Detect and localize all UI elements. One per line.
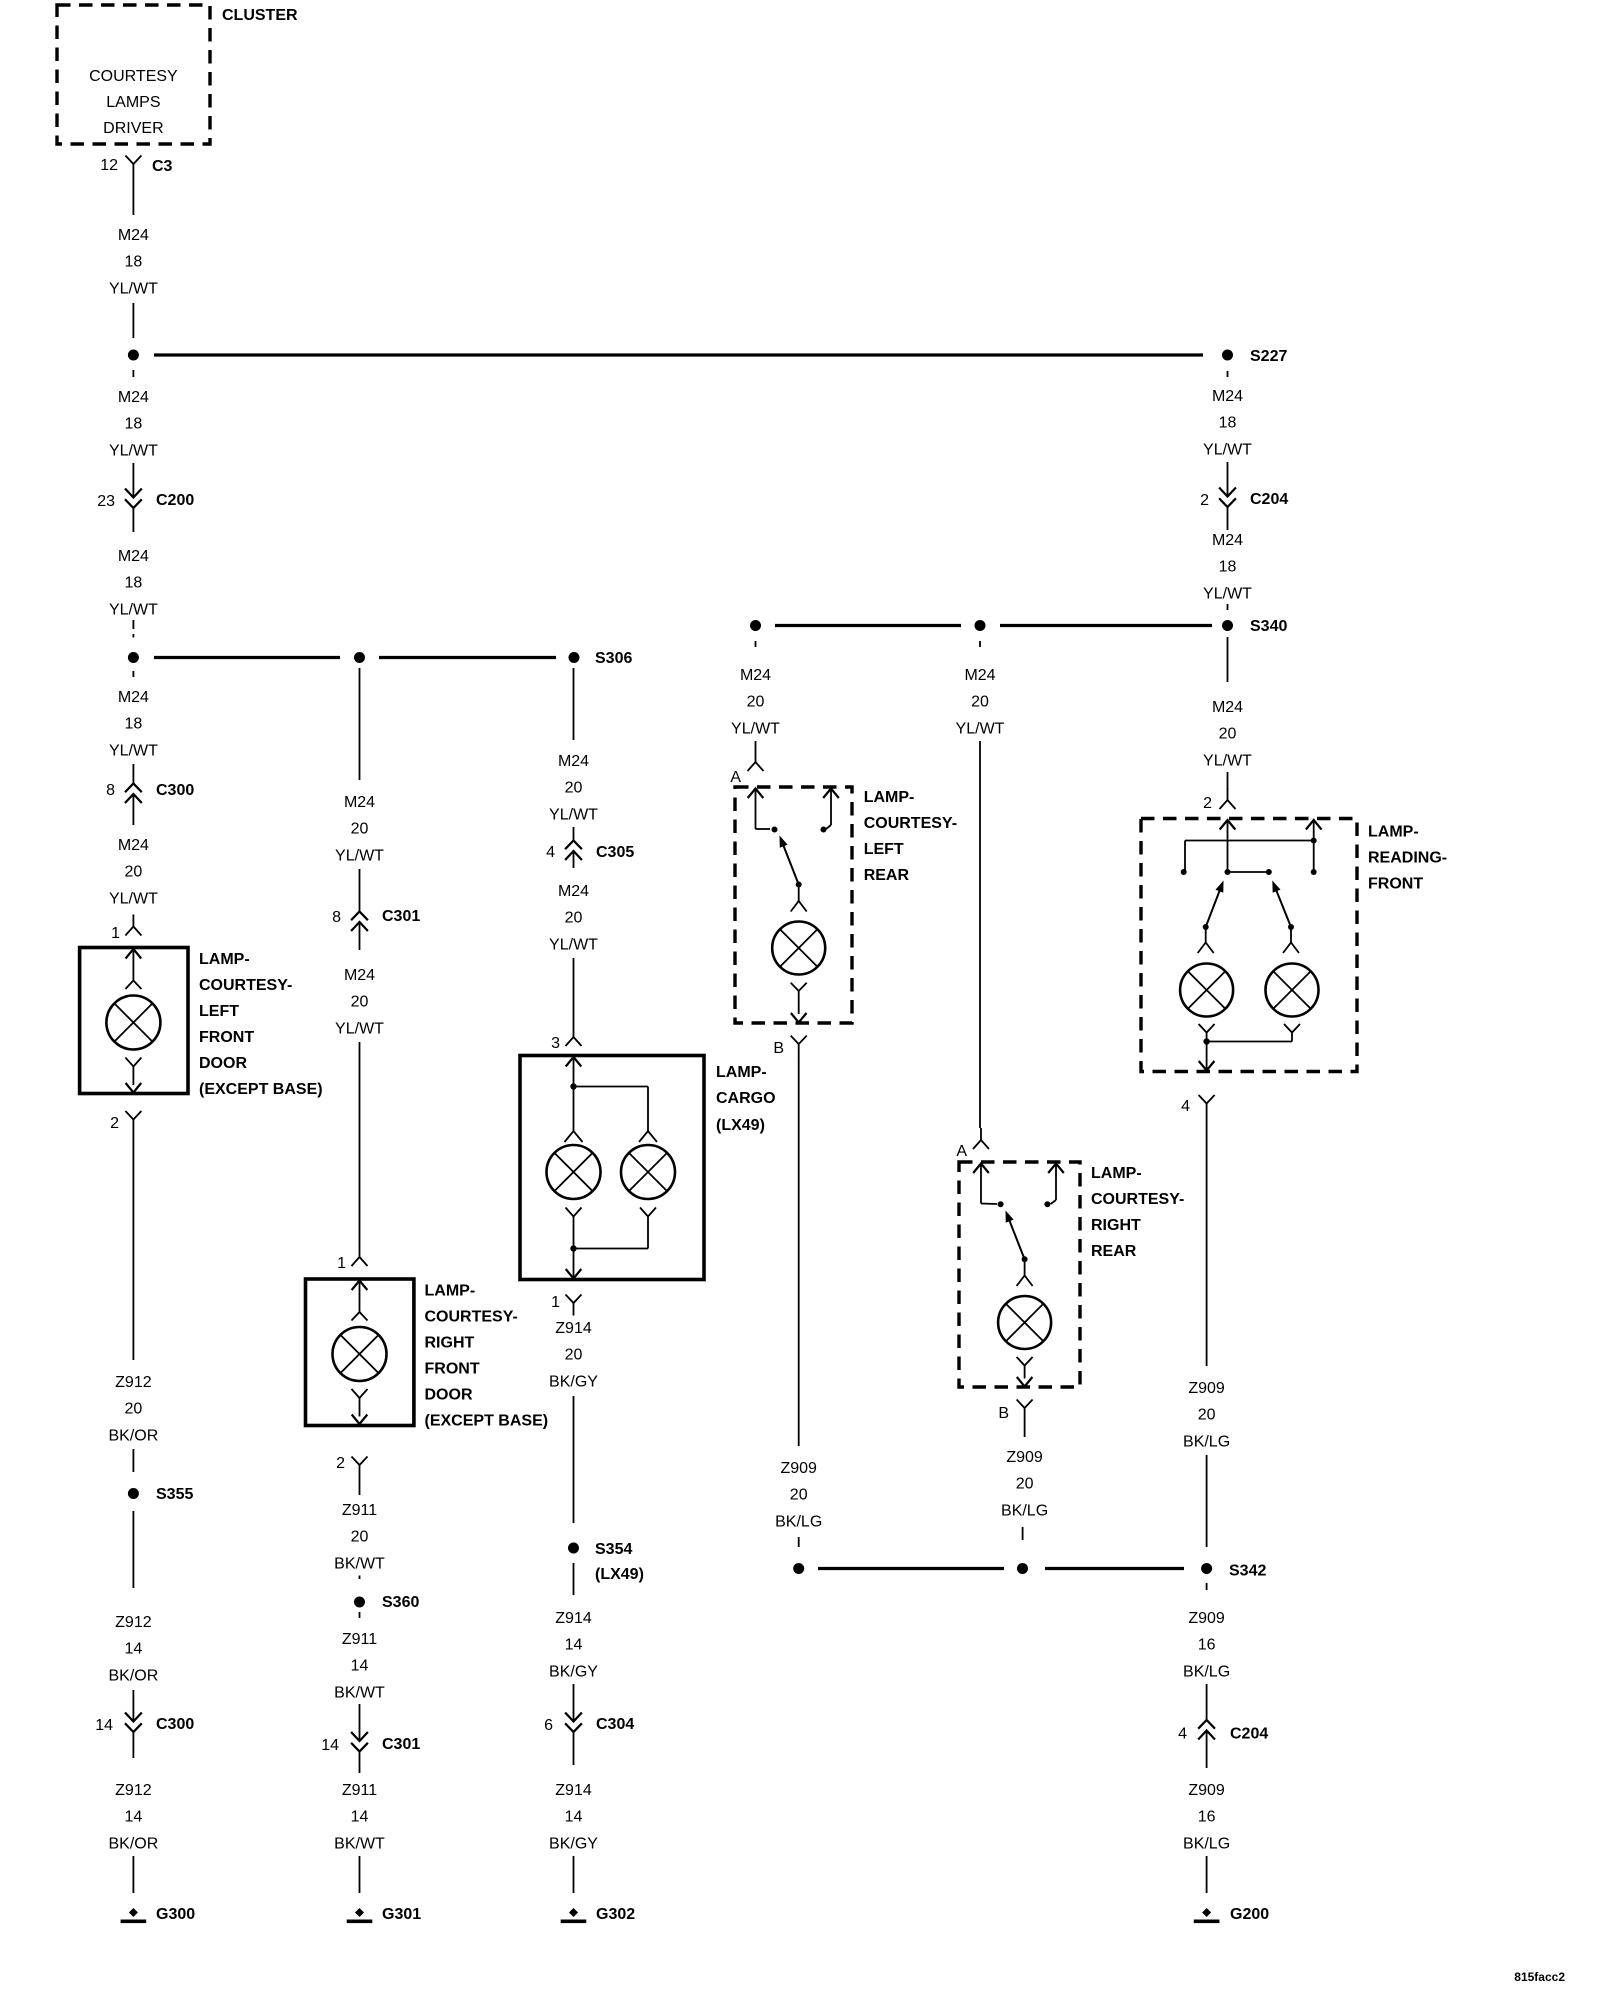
svg-text:COURTESY-: COURTESY-	[864, 815, 957, 832]
svg-text:Z914: Z914	[555, 1320, 592, 1337]
pin number 2	[1203, 795, 1212, 812]
wire label Z909 20 BK/LG	[1183, 1380, 1230, 1450]
wire Z909 down from reading lamp	[1206, 1116, 1208, 1366]
wire label M24 20 YL/WT	[335, 967, 384, 1037]
contact dot left	[1181, 869, 1187, 875]
svg-text:YL/WT: YL/WT	[335, 847, 384, 864]
right rear lamp label	[1091, 1165, 1184, 1260]
connector C3 pin 12 (Y pin below cluster)	[125, 156, 141, 177]
svg-text:16: 16	[1198, 1637, 1216, 1654]
S306 junction dot (centre, column B tap)	[354, 652, 365, 663]
right front door lamp label	[425, 1283, 549, 1430]
pin number 23	[97, 493, 115, 510]
S342 junction dot (centre)	[1017, 1563, 1028, 1574]
wire from C305	[573, 851, 575, 868]
svg-text:18: 18	[125, 416, 143, 433]
wire down to splice S354	[573, 1396, 575, 1523]
splice S355 label	[156, 1486, 193, 1503]
lamp pin B exit symbol	[791, 1036, 807, 1057]
Y below bulb	[1017, 1357, 1033, 1379]
entry arrow pin 2 inside reading lamp	[1220, 820, 1236, 872]
svg-text:LAMPS: LAMPS	[106, 94, 160, 111]
right pivot to chevron	[1290, 927, 1292, 943]
wire to splice S342	[798, 1537, 800, 1547]
ground G200 label	[1230, 1906, 1269, 1923]
wire label Z914 14 BK/GY	[549, 1782, 598, 1852]
svg-text:Z909: Z909	[1188, 1380, 1225, 1397]
svg-text:C204: C204	[1230, 1726, 1268, 1743]
wire label Z912 14 BK/OR	[109, 1614, 159, 1684]
connector C300 lower label	[156, 1716, 194, 1733]
wire to ground G302	[573, 1856, 575, 1893]
svg-text:(LX49): (LX49)	[716, 1117, 765, 1134]
svg-text:Z912: Z912	[115, 1782, 152, 1799]
pin number 14	[95, 1717, 113, 1734]
connector C300 (in-line, pin 8)	[125, 784, 142, 804]
splice S354 junction dot	[568, 1543, 579, 1554]
wire pivot to chevron	[798, 885, 800, 902]
wire label M24 20 YL/WT	[1203, 699, 1252, 769]
wire from S354	[573, 1563, 575, 1595]
svg-text:20: 20	[351, 821, 369, 838]
S227 bus wire	[154, 353, 1203, 356]
exit wire and arrow	[566, 1249, 582, 1279]
svg-text:18: 18	[1219, 559, 1237, 576]
wire from lower C204	[1206, 1731, 1208, 1768]
svg-text:YL/WT: YL/WT	[109, 280, 158, 297]
svg-text:DOOR: DOOR	[199, 1055, 247, 1072]
svg-text:20: 20	[1198, 1407, 1216, 1424]
svg-text:DRIVER: DRIVER	[103, 120, 163, 137]
switch blade (left rear lamp)	[780, 836, 799, 885]
switch pivot dot right	[1288, 924, 1294, 930]
contact dot centre-left	[1225, 869, 1231, 875]
connector C305 (in-line, pin 4)	[565, 841, 582, 861]
internal Y below bulb	[125, 1058, 141, 1086]
wire label Z914 20 BK/GY	[549, 1320, 598, 1390]
chevron above left bulb	[1198, 943, 1214, 954]
svg-text:M24: M24	[740, 667, 771, 684]
bottom link wire	[1207, 1041, 1292, 1043]
svg-text:4: 4	[546, 844, 555, 861]
lamp pin 2 exit symbol	[125, 1111, 141, 1132]
pin number 6	[544, 1717, 553, 1734]
svg-text:FRONT: FRONT	[425, 1361, 480, 1378]
pin number 2	[336, 1455, 345, 1472]
wire into connector C204	[1227, 462, 1229, 497]
chevron above bulb	[1017, 1276, 1033, 1287]
svg-text:Z912: Z912	[115, 1614, 152, 1631]
lamp pin 1 entry symbol	[352, 1245, 368, 1266]
wire M24 from C3	[132, 177, 134, 216]
pin number 1	[337, 1255, 346, 1272]
tick above splice S360	[359, 1576, 361, 1580]
lamp courtesy left rear box (dashed)	[735, 787, 852, 1023]
cluster text COURTESY LAMPS DRIVER	[89, 68, 178, 137]
svg-text:COURTESY-: COURTESY-	[425, 1309, 518, 1326]
cargo bulb right	[621, 1145, 675, 1199]
tick below S227 right dot	[1227, 371, 1229, 377]
wire label Z911 14 BK/WT	[334, 1782, 385, 1852]
entry arrow inside cargo lamp	[566, 1057, 582, 1087]
svg-text:LAMP-: LAMP-	[425, 1283, 476, 1300]
svg-text:S360: S360	[382, 1594, 419, 1611]
wire label Z909 16 BK/LG	[1183, 1782, 1230, 1852]
svg-text:YL/WT: YL/WT	[956, 720, 1005, 737]
svg-text:Z914: Z914	[555, 1782, 592, 1799]
svg-text:16: 16	[1198, 1809, 1216, 1826]
splice S306 junction dot (right)	[569, 652, 580, 663]
wire from C204	[1227, 507, 1229, 531]
svg-text:BK/GY: BK/GY	[549, 1835, 598, 1852]
svg-text:14: 14	[95, 1717, 113, 1734]
svg-text:COURTESY-: COURTESY-	[1091, 1191, 1184, 1208]
wire into connector C300	[132, 764, 134, 784]
entry arrow second terminal	[1048, 1164, 1064, 1205]
pin letter B	[998, 1405, 1009, 1422]
wire to ground G301	[359, 1856, 361, 1893]
svg-text:23: 23	[97, 493, 115, 510]
diagram id 815facc2	[1514, 1970, 1565, 1984]
svg-text:YL/WT: YL/WT	[109, 601, 158, 618]
svg-text:18: 18	[125, 254, 143, 271]
svg-text:DOOR: DOOR	[425, 1387, 473, 1404]
lamp pin A entry symbol	[973, 1128, 989, 1149]
svg-text:BK/GY: BK/GY	[549, 1663, 598, 1680]
exit arrow at dashed box bottom	[791, 1013, 807, 1023]
contact dot right	[1311, 869, 1317, 875]
svg-text:(EXCEPT BASE): (EXCEPT BASE)	[199, 1081, 323, 1098]
wire to ground G300	[132, 1856, 134, 1893]
svg-text:C304: C304	[596, 1716, 634, 1733]
svg-text:20: 20	[747, 694, 765, 711]
svg-text:2: 2	[336, 1455, 345, 1472]
pin letter A	[730, 769, 741, 786]
wire to S342 centre	[1022, 1527, 1024, 1540]
svg-text:14: 14	[351, 1809, 369, 1826]
lamp pin B exit symbol	[1017, 1400, 1033, 1421]
svg-text:Z909: Z909	[1006, 1449, 1043, 1466]
switch pivot dot	[1022, 1256, 1028, 1262]
svg-text:4: 4	[1178, 1726, 1187, 1743]
bulb symbol right front door lamp	[333, 1327, 387, 1381]
svg-text:S354: S354	[595, 1541, 632, 1558]
splice S355 junction dot	[128, 1488, 139, 1499]
svg-text:COURTESY: COURTESY	[89, 68, 178, 85]
svg-text:M24: M24	[118, 227, 149, 244]
splice S354 label	[595, 1541, 644, 1583]
svg-text:LAMP-: LAMP-	[716, 1064, 767, 1081]
svg-text:8: 8	[106, 782, 115, 799]
Y below right bulb	[640, 1208, 656, 1249]
Y below left bulb	[1199, 1024, 1215, 1042]
Y below bulb	[791, 983, 807, 1014]
svg-text:2: 2	[1200, 492, 1209, 509]
wire label Z911 14 BK/WT	[334, 1631, 385, 1701]
svg-text:20: 20	[351, 1529, 369, 1546]
svg-text:LAMP-: LAMP-	[1091, 1165, 1142, 1182]
connector C3 label	[152, 158, 173, 175]
svg-text:20: 20	[351, 994, 369, 1011]
svg-text:S340: S340	[1250, 618, 1287, 635]
internal crossbar wire	[1185, 841, 1314, 872]
svg-text:FRONT: FRONT	[199, 1029, 254, 1046]
svg-text:815facc2: 815facc2	[1514, 1970, 1565, 1984]
pin letter B	[773, 1040, 784, 1057]
internal Y below bulb	[352, 1389, 368, 1417]
exit arrow at dashed box bottom	[1017, 1377, 1033, 1387]
wire label M24 18 YL/WT	[109, 689, 158, 759]
connector C301 label	[382, 908, 420, 925]
svg-text:S355: S355	[156, 1486, 193, 1503]
svg-text:G301: G301	[382, 1906, 421, 1923]
lamp pin 1 exit symbol	[566, 1295, 582, 1316]
wire into connector C301	[359, 869, 361, 912]
wire label M24 20 YL/WT	[549, 753, 598, 823]
svg-text:14: 14	[125, 1809, 143, 1826]
svg-text:14: 14	[351, 1658, 369, 1675]
left front door lamp label	[199, 951, 323, 1098]
svg-text:20: 20	[1016, 1476, 1034, 1493]
svg-text:BK/GY: BK/GY	[549, 1373, 598, 1390]
S342 bus wire segment 1	[818, 1567, 1004, 1570]
svg-text:(EXCEPT BASE): (EXCEPT BASE)	[425, 1413, 549, 1430]
svg-text:YL/WT: YL/WT	[1203, 752, 1252, 769]
wire Z912 down from door lamp	[132, 1132, 134, 1360]
connector C204 lower (in-line, pin 4)	[1198, 1720, 1215, 1740]
svg-text:YL/WT: YL/WT	[731, 720, 780, 737]
svg-text:CARGO: CARGO	[716, 1090, 776, 1107]
switch pivot dot left	[1203, 924, 1209, 930]
svg-text:M24: M24	[558, 753, 589, 770]
svg-text:YL/WT: YL/WT	[1203, 441, 1252, 458]
splice S306 junction dot (left)	[128, 652, 139, 663]
svg-text:LEFT: LEFT	[864, 841, 904, 858]
svg-text:Z912: Z912	[115, 1374, 152, 1391]
wire below S340 to reading lamp	[1227, 637, 1229, 682]
wire Z911 down	[359, 1478, 361, 1496]
wire label M24 18 YL/WT	[109, 389, 158, 459]
ground G300	[121, 1908, 147, 1923]
svg-text:S306: S306	[595, 650, 632, 667]
branch wire to right bulb	[574, 1087, 649, 1132]
connector C204 label	[1250, 491, 1288, 508]
svg-text:20: 20	[125, 1401, 143, 1418]
svg-text:Z914: Z914	[555, 1610, 592, 1627]
svg-text:C301: C301	[382, 1736, 420, 1753]
svg-text:C300: C300	[156, 782, 194, 799]
svg-text:M24: M24	[344, 794, 375, 811]
svg-text:LAMP-: LAMP-	[1368, 824, 1419, 841]
svg-text:BK/OR: BK/OR	[109, 1427, 159, 1444]
connector C301 (in-line, pin 8)	[351, 912, 368, 932]
entry arrow inside right front door lamp	[352, 1281, 368, 1312]
bulb symbol left front door lamp	[106, 996, 160, 1050]
pin letter A	[956, 1143, 967, 1160]
wire label Z909 16 BK/LG	[1183, 1610, 1230, 1680]
lamp pin 2 entry symbol	[1220, 788, 1236, 809]
svg-text:BK/LG: BK/LG	[1183, 1835, 1230, 1852]
splice S342 junction dot (left)	[793, 1563, 804, 1574]
svg-text:RIGHT: RIGHT	[1091, 1217, 1141, 1234]
svg-text:BK/WT: BK/WT	[334, 1555, 385, 1572]
internal chevron	[352, 1312, 368, 1321]
svg-text:REAR: REAR	[1091, 1243, 1137, 1260]
svg-text:G300: G300	[156, 1906, 195, 1923]
svg-text:BK/OR: BK/OR	[109, 1667, 159, 1684]
exit arrow at box bottom	[352, 1415, 368, 1425]
lamp reading front box (dashed)	[1141, 819, 1357, 1072]
svg-text:RIGHT: RIGHT	[425, 1335, 475, 1352]
wire label M24 20 YL/WT	[109, 837, 158, 907]
lamp pin 1 entry symbol	[125, 915, 141, 936]
wire label Z912 20 BK/OR	[109, 1374, 159, 1444]
svg-text:14: 14	[321, 1737, 339, 1754]
wire label Z912 14 BK/OR	[109, 1782, 159, 1852]
wire from C200	[132, 508, 134, 533]
svg-text:M24: M24	[118, 689, 149, 706]
svg-text:S342: S342	[1229, 1563, 1266, 1580]
wire down to right rear lamp	[979, 741, 981, 1128]
wire to splice S306	[132, 620, 134, 638]
svg-text:M24: M24	[118, 548, 149, 565]
svg-text:20: 20	[971, 694, 989, 711]
wire to splice S355	[132, 1449, 134, 1472]
pin number 2	[110, 1115, 119, 1132]
left branch wire	[573, 1087, 575, 1132]
wire to lamp pin A	[755, 741, 757, 750]
wire from C304	[573, 1732, 575, 1766]
svg-text:Z911: Z911	[342, 1782, 377, 1799]
switch contact dot A	[772, 827, 778, 833]
cluster label	[222, 7, 298, 24]
wire to ground G200	[1206, 1856, 1208, 1893]
splice S227 label	[1250, 348, 1287, 365]
connector C304 label	[596, 1716, 634, 1733]
switch contact dot A	[998, 1201, 1004, 1207]
svg-text:8: 8	[332, 909, 341, 926]
svg-text:BK/LG: BK/LG	[1183, 1433, 1230, 1450]
pin number 4	[546, 844, 555, 861]
chevron above left bulb	[565, 1131, 583, 1142]
pin number 1	[551, 1294, 560, 1311]
bottom junction dot	[1203, 1038, 1209, 1044]
entry arrow second terminal	[823, 789, 839, 830]
splice S360 label	[382, 1594, 419, 1611]
ground G200	[1194, 1908, 1220, 1923]
lamp courtesy right rear box (dashed)	[959, 1162, 1080, 1387]
wire into lower connector C301	[359, 1704, 361, 1741]
wire into connector C305	[573, 827, 575, 841]
tick below S306 left dot	[132, 671, 134, 677]
svg-text:FRONT: FRONT	[1368, 876, 1423, 893]
wire from S355	[132, 1511, 134, 1588]
S306 bus wire segment 2	[379, 656, 556, 659]
splice S340 junction dot (right)	[1222, 620, 1233, 631]
svg-text:C300: C300	[156, 1716, 194, 1733]
svg-text:14: 14	[565, 1637, 583, 1654]
pin number 2	[1200, 492, 1209, 509]
crossbar dot at right entry	[1311, 838, 1317, 844]
splice S342 label	[1229, 1563, 1266, 1580]
reading lamp label	[1368, 824, 1447, 893]
switch blade right (reading lamp)	[1272, 881, 1291, 928]
wire label M24 18 YL/WT	[1203, 388, 1252, 458]
ground G301	[347, 1908, 373, 1923]
connector C301 lower (in-line, pin 14)	[351, 1732, 368, 1752]
wire to splice S342 right dot	[1206, 1455, 1208, 1547]
cargo bulb left	[547, 1145, 601, 1199]
pin number 12	[100, 157, 118, 174]
svg-text:20: 20	[790, 1487, 808, 1504]
wire into connector C304	[573, 1684, 575, 1721]
svg-text:14: 14	[565, 1809, 583, 1826]
switch contact dot 2	[821, 827, 827, 833]
svg-text:Z911: Z911	[342, 1631, 377, 1648]
pin number 8	[332, 909, 341, 926]
chevron above right bulb	[1283, 943, 1299, 954]
tick above S340	[1227, 604, 1229, 610]
cargo lamp label	[716, 1064, 776, 1134]
lamp pin 3 entry symbol	[566, 1025, 582, 1046]
svg-text:C301: C301	[382, 908, 420, 925]
svg-text:G200: G200	[1230, 1906, 1269, 1923]
wire label M24 20 YL/WT	[956, 667, 1005, 737]
wire to lamp pin 2	[1227, 772, 1229, 790]
wire Z909 down	[1024, 1421, 1026, 1438]
wire label M24 20 YL/WT	[335, 794, 384, 864]
svg-text:REAR: REAR	[864, 867, 910, 884]
svg-text:2: 2	[1203, 795, 1212, 812]
bulb symbol reading lamp left	[1180, 964, 1233, 1017]
ground G302	[561, 1908, 587, 1923]
cargo lamp internal junction dot (top)	[570, 1083, 576, 1089]
connector C301 lower label	[382, 1736, 420, 1753]
svg-text:LEFT: LEFT	[199, 1003, 239, 1020]
svg-text:6: 6	[544, 1717, 553, 1734]
exit wire and arrow	[1199, 1042, 1215, 1071]
Y below right bulb	[1284, 1024, 1300, 1042]
wire pivot to chevron	[1024, 1259, 1026, 1275]
svg-text:C3: C3	[152, 158, 173, 175]
svg-text:READING-: READING-	[1368, 850, 1447, 867]
svg-text:YL/WT: YL/WT	[549, 936, 598, 953]
svg-text:Z909: Z909	[780, 1460, 817, 1477]
Y below left bulb	[566, 1208, 582, 1249]
svg-text:18: 18	[1219, 415, 1237, 432]
splice S306 label	[595, 650, 632, 667]
pin number 8	[106, 782, 115, 799]
tick below S342 right dot	[1206, 1583, 1208, 1590]
left pivot to chevron	[1205, 927, 1207, 943]
svg-text:YL/WT: YL/WT	[549, 806, 598, 823]
svg-text:G302: G302	[596, 1906, 635, 1923]
lamp cargo box	[520, 1056, 704, 1280]
svg-text:M24: M24	[964, 667, 995, 684]
svg-text:A: A	[956, 1143, 967, 1160]
svg-text:12: 12	[100, 157, 118, 174]
svg-text:20: 20	[1219, 726, 1237, 743]
wire label M24 18 YL/WT	[109, 227, 158, 297]
splice S227 junction dot (left)	[128, 350, 139, 361]
svg-text:18: 18	[125, 716, 143, 733]
bulb symbol left rear lamp	[772, 922, 825, 975]
internal chevron	[125, 981, 141, 990]
svg-text:C305: C305	[596, 844, 634, 861]
wire Z909 down from left rear lamp	[798, 1057, 800, 1447]
svg-text:1: 1	[337, 1255, 346, 1272]
svg-text:C204: C204	[1250, 491, 1288, 508]
